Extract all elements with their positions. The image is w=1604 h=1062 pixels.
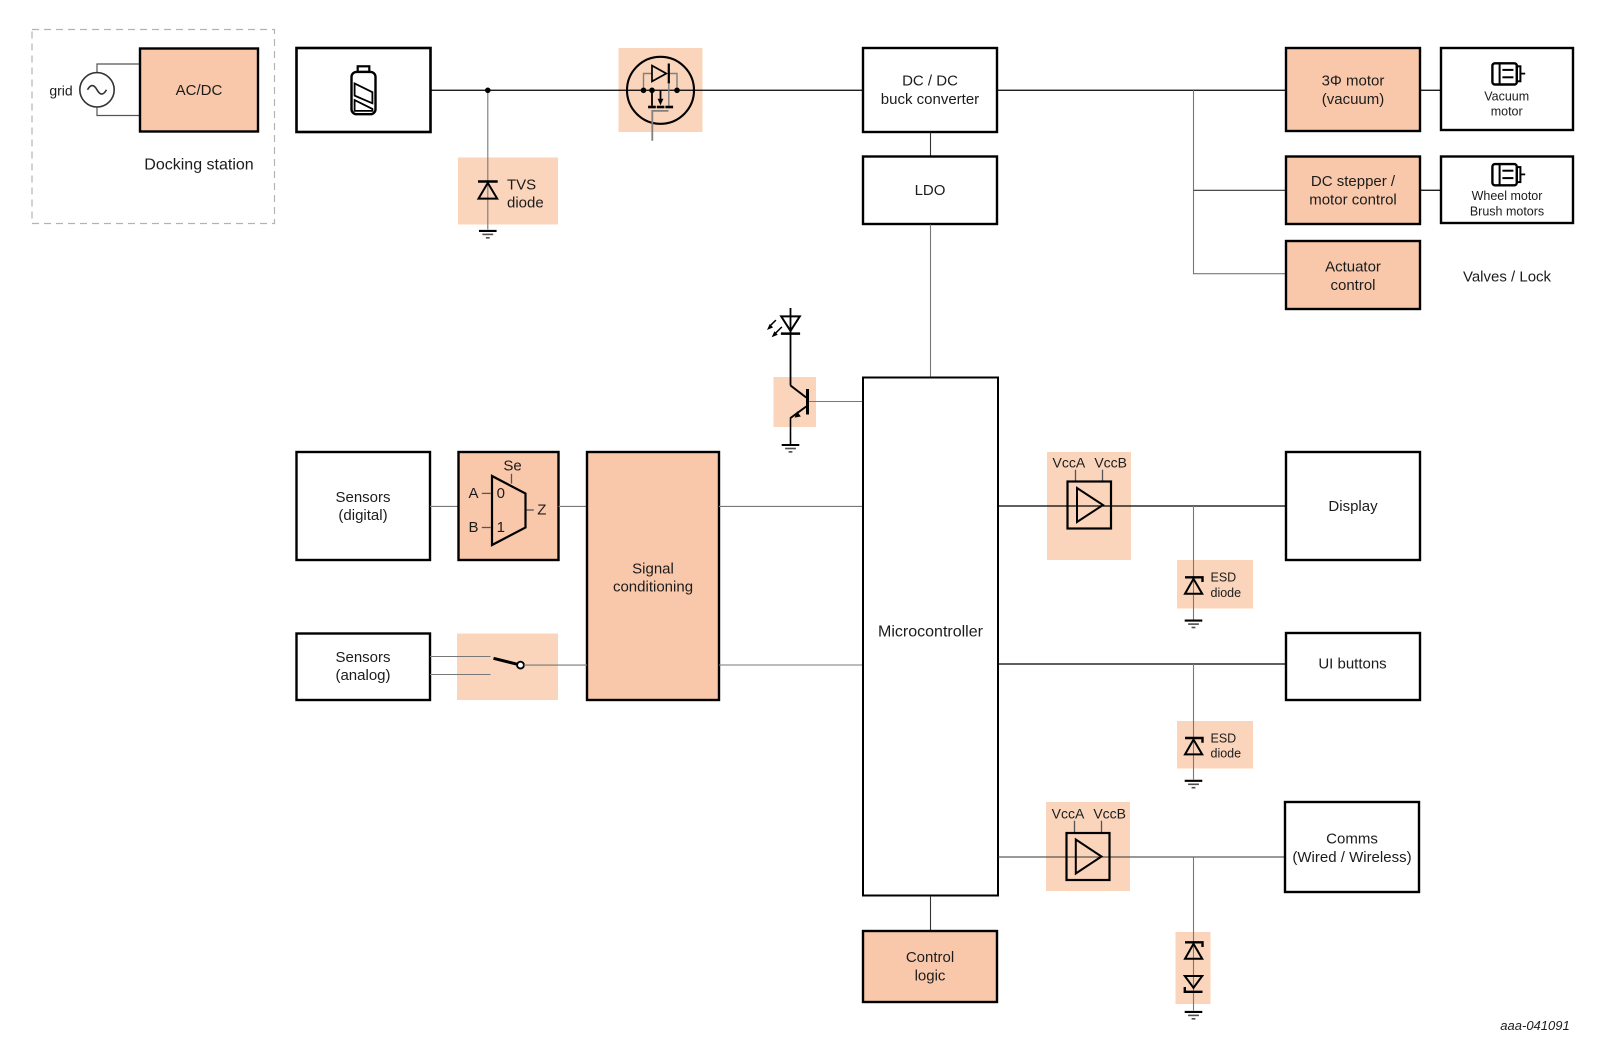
svg-text:buck converter: buck converter bbox=[881, 91, 979, 108]
svg-text:Comms: Comms bbox=[1326, 830, 1378, 847]
svg-text:1: 1 bbox=[497, 519, 505, 536]
svg-text:Z: Z bbox=[537, 502, 546, 519]
svg-text:(analog): (analog) bbox=[335, 667, 390, 684]
svg-text:conditioning: conditioning bbox=[613, 579, 693, 596]
svg-text:AC/DC: AC/DC bbox=[176, 82, 223, 99]
svg-text:control: control bbox=[1330, 277, 1375, 294]
svg-text:VccB: VccB bbox=[1093, 805, 1126, 821]
svg-text:Sensors: Sensors bbox=[335, 489, 390, 506]
svg-text:grid: grid bbox=[49, 82, 72, 98]
svg-text:DC stepper /: DC stepper / bbox=[1311, 173, 1396, 190]
svg-text:diode: diode bbox=[507, 195, 544, 212]
svg-text:motor control: motor control bbox=[1309, 192, 1397, 209]
svg-text:B: B bbox=[468, 519, 478, 536]
svg-text:diode: diode bbox=[1211, 586, 1242, 600]
svg-text:UI buttons: UI buttons bbox=[1318, 655, 1386, 672]
svg-text:(digital): (digital) bbox=[338, 507, 387, 524]
svg-text:3Φ motor: 3Φ motor bbox=[1322, 73, 1385, 90]
svg-text:VccA: VccA bbox=[1053, 454, 1086, 470]
svg-text:(Wired / Wireless): (Wired / Wireless) bbox=[1292, 849, 1411, 866]
svg-text:Se: Se bbox=[503, 458, 521, 475]
svg-text:Docking station: Docking station bbox=[144, 157, 253, 174]
svg-text:Wheel motor: Wheel motor bbox=[1472, 189, 1543, 203]
svg-text:Valves / Lock: Valves / Lock bbox=[1463, 268, 1552, 285]
svg-text:DC / DC: DC / DC bbox=[902, 73, 958, 90]
svg-text:Control: Control bbox=[906, 949, 954, 966]
svg-text:0: 0 bbox=[497, 485, 505, 502]
svg-text:motor: motor bbox=[1491, 105, 1523, 119]
svg-text:Sensors: Sensors bbox=[335, 649, 390, 666]
svg-text:LDO: LDO bbox=[915, 182, 946, 199]
svg-text:Actuator: Actuator bbox=[1325, 258, 1381, 275]
svg-text:aaa-041091: aaa-041091 bbox=[1500, 1018, 1569, 1033]
svg-text:Signal: Signal bbox=[632, 561, 674, 578]
svg-text:Display: Display bbox=[1328, 498, 1378, 515]
svg-text:A: A bbox=[468, 485, 478, 502]
svg-text:VccB: VccB bbox=[1094, 454, 1127, 470]
svg-text:diode: diode bbox=[1211, 747, 1242, 761]
svg-text:Brush motors: Brush motors bbox=[1470, 204, 1544, 218]
svg-text:ESD: ESD bbox=[1211, 731, 1237, 745]
svg-text:Vacuum: Vacuum bbox=[1484, 90, 1529, 104]
svg-text:logic: logic bbox=[915, 967, 946, 984]
svg-text:VccA: VccA bbox=[1052, 805, 1085, 821]
svg-text:ESD: ESD bbox=[1211, 571, 1237, 585]
svg-text:Microcontroller: Microcontroller bbox=[878, 624, 984, 641]
svg-text:TVS: TVS bbox=[507, 177, 536, 194]
svg-text:(vacuum): (vacuum) bbox=[1322, 91, 1385, 108]
